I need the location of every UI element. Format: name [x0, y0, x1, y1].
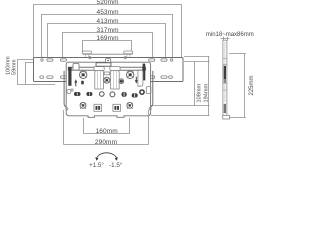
left side flange — [64, 71, 66, 107]
left flange screw — [66, 108, 68, 110]
svg-text:min18~max86mm: min18~max86mm — [206, 32, 254, 38]
center screw with cross — [104, 77, 110, 83]
top rail line behind plate — [82, 53, 132, 55]
left hook head — [73, 63, 79, 70]
bottom square nut right — [113, 104, 121, 111]
right side flange — [151, 71, 153, 107]
side view body — [223, 40, 230, 119]
center bar — [96, 63, 111, 66]
dark nub under left screw — [81, 81, 84, 85]
middle row circle 2 — [110, 92, 115, 97]
right dark rail — [117, 64, 146, 81]
svg-text:108mm: 108mm — [196, 84, 202, 103]
dimension 413mm — [48, 18, 166, 59]
middle row dark pill slotted — [132, 93, 138, 97]
dimension 520mm — [34, 0, 182, 58]
small plate circle left — [89, 57, 91, 59]
top hook tab right — [124, 51, 133, 58]
small plate circle right — [124, 57, 126, 59]
svg-text:160mm: 160mm — [96, 128, 118, 135]
dimension 100mm (left) — [6, 56, 55, 84]
svg-text:-1.5°: -1.5° — [109, 162, 123, 169]
center nut above screw — [104, 72, 109, 75]
svg-text:290mm: 290mm — [95, 139, 117, 146]
middle row dark pill 1 — [74, 92, 81, 96]
right down arrow — [135, 77, 138, 84]
middle row dark pill 2 — [86, 92, 92, 96]
svg-text:225mm: 225mm — [249, 75, 255, 95]
TV bracket outline — [64, 62, 153, 117]
side view thickness dim — [221, 37, 230, 41]
svg-text:169mm: 169mm — [97, 35, 119, 42]
tilt arc — [95, 153, 118, 161]
svg-text:453mm: 453mm — [97, 9, 119, 16]
wall plate hole row 1 — [41, 59, 173, 61]
bottom square nut left — [94, 104, 102, 111]
right edge inner plate — [146, 87, 151, 94]
dimension 317mm — [63, 27, 153, 59]
washer left — [67, 89, 73, 94]
dimension 194mm (right of plate) — [151, 57, 210, 116]
svg-text:520mm: 520mm — [97, 0, 119, 6]
wall plate hole row 2 — [40, 76, 173, 78]
wall plate — [34, 58, 184, 82]
washer right — [140, 90, 144, 94]
dimension 169mm — [83, 35, 132, 53]
svg-text:194mm: 194mm — [203, 84, 209, 103]
dimension 225mm (side view) — [229, 54, 255, 118]
dimension 59mm (left) — [11, 59, 44, 84]
top hook tab left — [82, 51, 91, 58]
svg-text:413mm: 413mm — [97, 18, 119, 25]
bottom screw left — [80, 103, 86, 109]
dimension 108mm (right of plate) — [151, 62, 210, 106]
bracket center top tab — [106, 59, 111, 63]
dimension 160mm (bottom) — [84, 118, 130, 135]
dimension 290mm (bottom) — [64, 110, 149, 146]
bottom screw right — [127, 103, 133, 109]
center-right channel — [110, 67, 120, 89]
right flange screw — [149, 108, 151, 110]
right screw with cross — [127, 71, 134, 78]
svg-text:59mm: 59mm — [11, 59, 17, 75]
left up arrow — [74, 79, 77, 86]
center dark circle — [119, 79, 124, 84]
dimension 453mm — [42, 9, 173, 59]
right lever strap — [138, 70, 143, 86]
left screw with cross — [80, 71, 87, 78]
middle row circle 1 — [100, 92, 105, 97]
left dark rail — [68, 67, 98, 86]
svg-text:317mm: 317mm — [97, 27, 119, 34]
left lever strap — [94, 67, 104, 71]
svg-text:+1.5°: +1.5° — [89, 162, 104, 169]
middle row dark circle slotted — [121, 92, 126, 97]
